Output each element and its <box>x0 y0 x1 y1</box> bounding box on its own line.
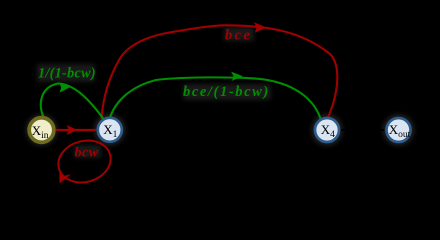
wire: black branch X4 to Xout (invisible on black background) <box>341 126 384 134</box>
svg-text:bcw: bcw <box>75 146 99 161</box>
arrowhead on red arc <box>254 22 267 32</box>
node Xout <box>387 118 411 142</box>
wire: red arc branch X1 to X4, old gain bce <box>102 25 338 119</box>
arrowhead on green arc <box>231 72 243 81</box>
node Xin <box>29 118 54 143</box>
wire: red straight branch Xin to X1, old gain 1 <box>56 125 96 135</box>
node X4 <box>315 118 339 142</box>
wire: red self-loop at X1, gain bcw <box>54 135 116 188</box>
svg-text:bce/(1-bcw): bce/(1-bcw) <box>183 84 270 100</box>
svg-text:1/(1-bcw): 1/(1-bcw) <box>38 66 96 82</box>
svg-text:bce: bce <box>225 28 252 44</box>
wire: green arc branch X1 to X4, new gain bce/(1-bcw) <box>110 77 321 118</box>
wire: green arch branch Xin to X1, new gain 1/(1-bcw) <box>41 82 104 119</box>
faint compression haze behind labels and nodes <box>26 27 415 158</box>
node X1 <box>98 118 122 142</box>
